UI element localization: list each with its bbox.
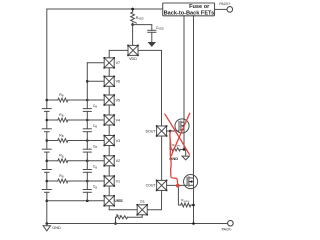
wire COUT pin bottom to TS <box>147 190 161 209</box>
wire bottom rail GND to PACK- <box>47 223 228 225</box>
resistor RB (V1 tap filter) <box>47 180 58 182</box>
pin box COUT <box>157 180 167 190</box>
resistor RB (V4 tap filter) <box>47 119 58 121</box>
svg-text:RB: RB <box>59 154 64 159</box>
pin box V4 <box>104 115 114 125</box>
svg-text:RGDPD: RGDPD <box>181 198 190 203</box>
node red junction at lower gate <box>176 184 180 188</box>
pin box TS <box>137 205 147 215</box>
terminal PACK+ <box>227 7 233 13</box>
wire to pin box <box>87 140 104 142</box>
svg-text:CB: CB <box>93 124 98 129</box>
junction on cap column <box>86 139 89 142</box>
svg-text:V4: V4 <box>116 118 121 122</box>
battery cell 1 <box>42 108 51 110</box>
svg-text:RB: RB <box>59 93 64 98</box>
node lower pulldown junction <box>192 204 195 207</box>
svg-text:RTS: RTS <box>116 213 121 218</box>
wire fuse pin2 vertical to lower FET drain <box>193 16 195 224</box>
transistor Q2 lower FET <box>184 175 198 189</box>
wire VSS row: battery negative to VSS pin <box>46 200 49 203</box>
svg-text:RB: RB <box>59 113 64 118</box>
svg-text:PACK+: PACK+ <box>219 2 230 6</box>
pin box DOUT <box>157 126 167 136</box>
wire DOUT to COUT chain <box>161 136 163 180</box>
wire RVDD to VDD pin box <box>132 25 134 45</box>
svg-text:V6: V6 <box>116 80 121 84</box>
node battery tap V5 tap <box>46 99 49 102</box>
pin box V2 <box>104 156 114 166</box>
wire V7 row corner <box>87 62 104 64</box>
pin box V5 <box>104 95 114 105</box>
svg-text:V5: V5 <box>116 98 121 102</box>
battery cell 2 <box>42 128 51 130</box>
wire pin chain <box>108 125 110 136</box>
resistor RTS <box>128 215 143 218</box>
capacitor CB 3 <box>83 148 91 150</box>
node battery tap V1 tap <box>46 180 49 183</box>
wire VDD pin to DOUT riser <box>138 50 162 126</box>
battery cell 4 <box>42 169 51 171</box>
resistor RGDPD (lower, gate pulldown) <box>178 185 180 205</box>
ground symbol (open triangle) under upper FET <box>185 149 187 156</box>
wire pin chain <box>108 86 110 95</box>
wire VSS pin bottom stub <box>108 206 110 210</box>
wire to pin box <box>87 180 104 182</box>
wire pin chain <box>108 166 110 176</box>
svg-text:TS: TS <box>140 200 145 204</box>
wire COUT pin to lower FET gate <box>167 184 188 186</box>
svg-text:V7: V7 <box>116 61 121 65</box>
wire tap to cap column <box>68 160 87 162</box>
pin box V3 <box>104 136 114 146</box>
svg-text:CVDD: CVDD <box>156 26 164 31</box>
svg-text:V2: V2 <box>116 159 121 163</box>
wire V7 pin to VDD pin <box>109 50 128 57</box>
capacitor CVDD <box>133 25 152 31</box>
node battery tap V3 tap <box>46 139 49 142</box>
svg-text:VSS: VSS <box>114 199 122 203</box>
node upper gate junction <box>169 130 172 133</box>
wire V6 row <box>86 80 89 83</box>
capacitor CB 5 <box>83 189 91 191</box>
battery cell 5 <box>42 189 51 191</box>
pin box V7 <box>104 58 114 68</box>
pin box V1 <box>104 176 114 186</box>
capacitor CB 1 <box>83 108 91 110</box>
node RVDD bottom junction <box>131 23 134 26</box>
resistor RB (V3 tap filter) <box>47 140 58 142</box>
wire tap to cap column <box>68 140 87 142</box>
pin box VDD <box>128 45 138 55</box>
wire tap to cap column <box>68 180 87 182</box>
svg-text:RB: RB <box>59 133 64 138</box>
wire tap to cap column <box>68 119 87 121</box>
svg-text:RVDD: RVDD <box>136 16 144 21</box>
capacitor CB 4 <box>83 169 91 171</box>
wire tap to cap column <box>68 99 87 101</box>
node battery tap V2 tap <box>46 160 49 163</box>
node battery negative / rail corner <box>46 222 49 225</box>
wire left battery rail segments <box>46 9 48 224</box>
wire to pin box <box>87 119 104 121</box>
svg-text:CB: CB <box>93 145 98 150</box>
node lower FET source on rail <box>192 222 195 225</box>
wire to pin box <box>87 99 104 101</box>
wire to pin box <box>87 160 104 162</box>
ground symbol GND (bottom left) <box>46 224 48 226</box>
fuse box: Fuse or Back-to-Back FETs <box>163 3 215 16</box>
node top rail / RVDD junction <box>131 8 134 11</box>
terminal PACK- <box>228 220 234 226</box>
ground arrow (CVDD) <box>148 42 156 47</box>
wire pin chain <box>108 105 110 115</box>
transistor Q1 upper FET (crossed out) <box>175 119 189 133</box>
svg-text:PACK-: PACK- <box>222 227 233 231</box>
svg-text:Fuse or: Fuse or <box>189 4 210 10</box>
wire TS left to VSS stub <box>109 209 137 211</box>
battery cell 3 <box>42 148 51 150</box>
capacitor CB 2 <box>83 128 91 130</box>
junction on cap column <box>86 99 89 102</box>
annotation red X over upper FET <box>165 114 189 154</box>
svg-text:V1: V1 <box>116 179 121 183</box>
annotation red wire DOUT to lower FET gate <box>170 131 178 184</box>
svg-text:VDD: VDD <box>129 57 137 61</box>
wire pin chain <box>108 68 110 77</box>
node upper FET source / GND <box>183 148 186 151</box>
wire DOUT pin to upper FET gate <box>167 130 179 132</box>
svg-text:V3: V3 <box>116 139 121 143</box>
wire fuse box to PACK+ <box>215 8 228 10</box>
wire top rail from battery+ to fuse box <box>47 8 163 10</box>
svg-text:DOUT: DOUT <box>146 129 157 133</box>
junction on cap column <box>86 160 89 163</box>
svg-text:GND: GND <box>52 226 61 230</box>
wire pin chain <box>108 146 110 156</box>
wire fuse pin1 vertical to upper FET drain <box>183 16 185 150</box>
resistor RB (V2 tap filter) <box>47 160 58 162</box>
node battery tap V4 tap <box>46 119 49 122</box>
junction on cap column <box>86 180 89 183</box>
svg-text:COUT: COUT <box>146 184 157 188</box>
resistor RB (V5 tap filter) <box>47 99 58 101</box>
junction on cap column <box>86 119 89 122</box>
svg-text:CB: CB <box>93 185 98 190</box>
svg-text:CB: CB <box>93 165 98 170</box>
wire pin chain <box>108 186 110 196</box>
wire gate junction down to RGDPD <box>169 131 171 149</box>
svg-text:CB: CB <box>93 104 98 109</box>
node RTS on bottom rail <box>114 222 117 225</box>
pin box V6 <box>104 76 114 86</box>
resistor RGDPD (upper, gate pulldown) <box>170 148 180 151</box>
resistor RVDD <box>131 8 134 11</box>
svg-text:RB: RB <box>59 174 64 179</box>
wire capacitor column (V7 down to VSS row) <box>86 63 88 201</box>
svg-text:Back-to-Back FETs: Back-to-Back FETs <box>164 11 215 17</box>
pin box VSS <box>104 196 114 206</box>
